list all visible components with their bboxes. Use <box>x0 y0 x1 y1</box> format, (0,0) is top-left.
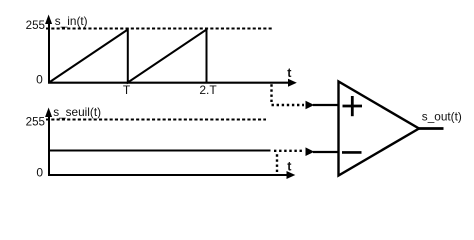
wire arrow into - input <box>306 147 315 156</box>
sawtooth waveform s_in <box>49 30 207 83</box>
wire dotted vertical to s_seuil axis <box>276 154 278 172</box>
wire dashed 255 level (s_seuil) <box>46 119 266 121</box>
svg-text:s_seuil(t): s_seuil(t) <box>53 105 101 119</box>
wire dotted tap from s_in axis <box>272 84 305 105</box>
wire output <box>418 127 444 130</box>
node s_in graph y-axis <box>45 15 52 84</box>
svg-text:s_in(t): s_in(t) <box>55 14 88 28</box>
pin + (non-inverting input) <box>343 96 363 116</box>
node s_seuil graph y-axis <box>45 108 52 177</box>
wire + input segment <box>313 104 339 106</box>
svg-text:255: 255 <box>26 19 45 32</box>
node s_in graph x-axis <box>48 79 297 87</box>
wire arrow into + input <box>306 101 315 110</box>
pin - (inverting input) <box>342 151 362 154</box>
node s_seuil graph x-axis <box>48 171 295 179</box>
wire dotted tap from threshold line <box>274 150 304 152</box>
svg-text:T: T <box>123 83 131 97</box>
svg-text:0: 0 <box>36 166 43 180</box>
threshold level line s_seuil <box>49 150 271 152</box>
wire dashed 255 level (s_in) <box>46 28 272 30</box>
op-amp comparator U1 <box>339 82 420 176</box>
svg-text:255: 255 <box>26 115 45 128</box>
svg-text:s_out(t): s_out(t) <box>422 110 462 124</box>
svg-text:0: 0 <box>36 73 43 87</box>
svg-text:2.T: 2.T <box>199 83 217 97</box>
wire - input segment <box>313 151 339 153</box>
